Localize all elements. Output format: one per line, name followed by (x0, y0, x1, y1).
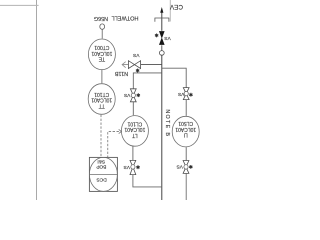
instrument bubble LT 10LCA01 CL101 (121, 116, 148, 147)
wire L3 main pipe to LT branch (133, 73, 162, 89)
valve VS E (open, LT branch lower) (130, 160, 136, 174)
valve VS C (open, LT branch upper) (130, 89, 136, 102)
svg-text:VS: VS (124, 92, 130, 98)
P&ID fragment (page shown rotated 180°) (0, 0, 200, 200)
border gray vertical line (36, 0, 38, 200)
asterisk below N11B valve (136, 69, 139, 73)
wire tap to TE bubble (101, 29, 103, 38)
boundary bracket (155, 18, 169, 22)
instrument bubble TE 10LCA01 CT001 (88, 39, 115, 70)
valve VS N11B (open, horizontal) (128, 61, 140, 69)
svg-text:CL101: CL101 (127, 120, 142, 126)
wire L2 main pipe to right branch (162, 68, 186, 87)
svg-text:CL501: CL501 (178, 120, 193, 126)
instrument bubble LI 10LCA01 CL501 (172, 116, 199, 147)
wire right branch bottom (185, 173, 187, 200)
svg-text:VS: VS (164, 35, 170, 41)
svg-text:N56G: N56G (94, 15, 108, 21)
asterisk right of valve C (137, 93, 140, 97)
svg-text:HOTWELL: HOTWELL (111, 15, 138, 21)
curved connector arc (122, 62, 126, 68)
asterisk right of valve E (136, 165, 139, 169)
wire L1 hotwell tap to main pipe (122, 64, 128, 66)
svg-text:BOP: BOP (96, 163, 106, 169)
svg-text:N11B: N11B (114, 70, 128, 76)
arrowhead into LT bubble (119, 129, 122, 133)
wire right branch to LI bubble (185, 100, 187, 116)
wire main vertical pipe (upper) (161, 12, 163, 30)
DCS square (89, 157, 117, 191)
signal wire TT to DCS (dashed) (100, 115, 102, 158)
DCS circle (89, 157, 117, 191)
asterisk left of filled valve (155, 34, 158, 38)
reducer circle on main pipe (161, 45, 163, 50)
svg-text:CT101: CT101 (94, 91, 109, 97)
asterisk right of valve A (189, 93, 192, 97)
svg-text:VS: VS (178, 91, 184, 97)
instrument bubble TT 10LCA01 CT101 (88, 84, 115, 115)
svg-text:DCS: DCS (96, 176, 107, 182)
wire valve E to main pipe (133, 175, 162, 187)
svg-text:VS: VS (124, 164, 130, 170)
svg-text:NOTE B: NOTE B (164, 109, 170, 137)
valve VS (filled) on main pipe (159, 31, 165, 45)
svg-text:S&I: S&I (97, 158, 105, 164)
svg-text:VS: VS (133, 52, 139, 58)
wire LT bubble to valve E (132, 146, 134, 160)
svg-text:CEV: CEV (169, 3, 183, 10)
border gray segment top right (169, 0, 171, 22)
signal wire LT to DCS (dashed) (108, 132, 119, 158)
hotwell tap circle (100, 24, 105, 29)
wire valve C to LT bubble (132, 102, 134, 115)
border gray horizontal line (0, 4, 39, 6)
off-page arrow to CEV (160, 7, 163, 13)
wire TE to TT (101, 70, 103, 83)
wire LI bubble to valve B (185, 147, 187, 160)
svg-text:CT001: CT001 (94, 44, 109, 50)
valve VS A (open, right branch upper) (183, 88, 189, 100)
DCS labels (96, 158, 107, 182)
asterisk right of valve B (189, 165, 192, 169)
valve VS B (open, right branch lower) (183, 161, 189, 174)
wire main vertical pipe (lower, NOTE B line) (161, 55, 163, 200)
svg-text:VS: VS (176, 164, 182, 170)
DCS divider line (89, 173, 117, 175)
